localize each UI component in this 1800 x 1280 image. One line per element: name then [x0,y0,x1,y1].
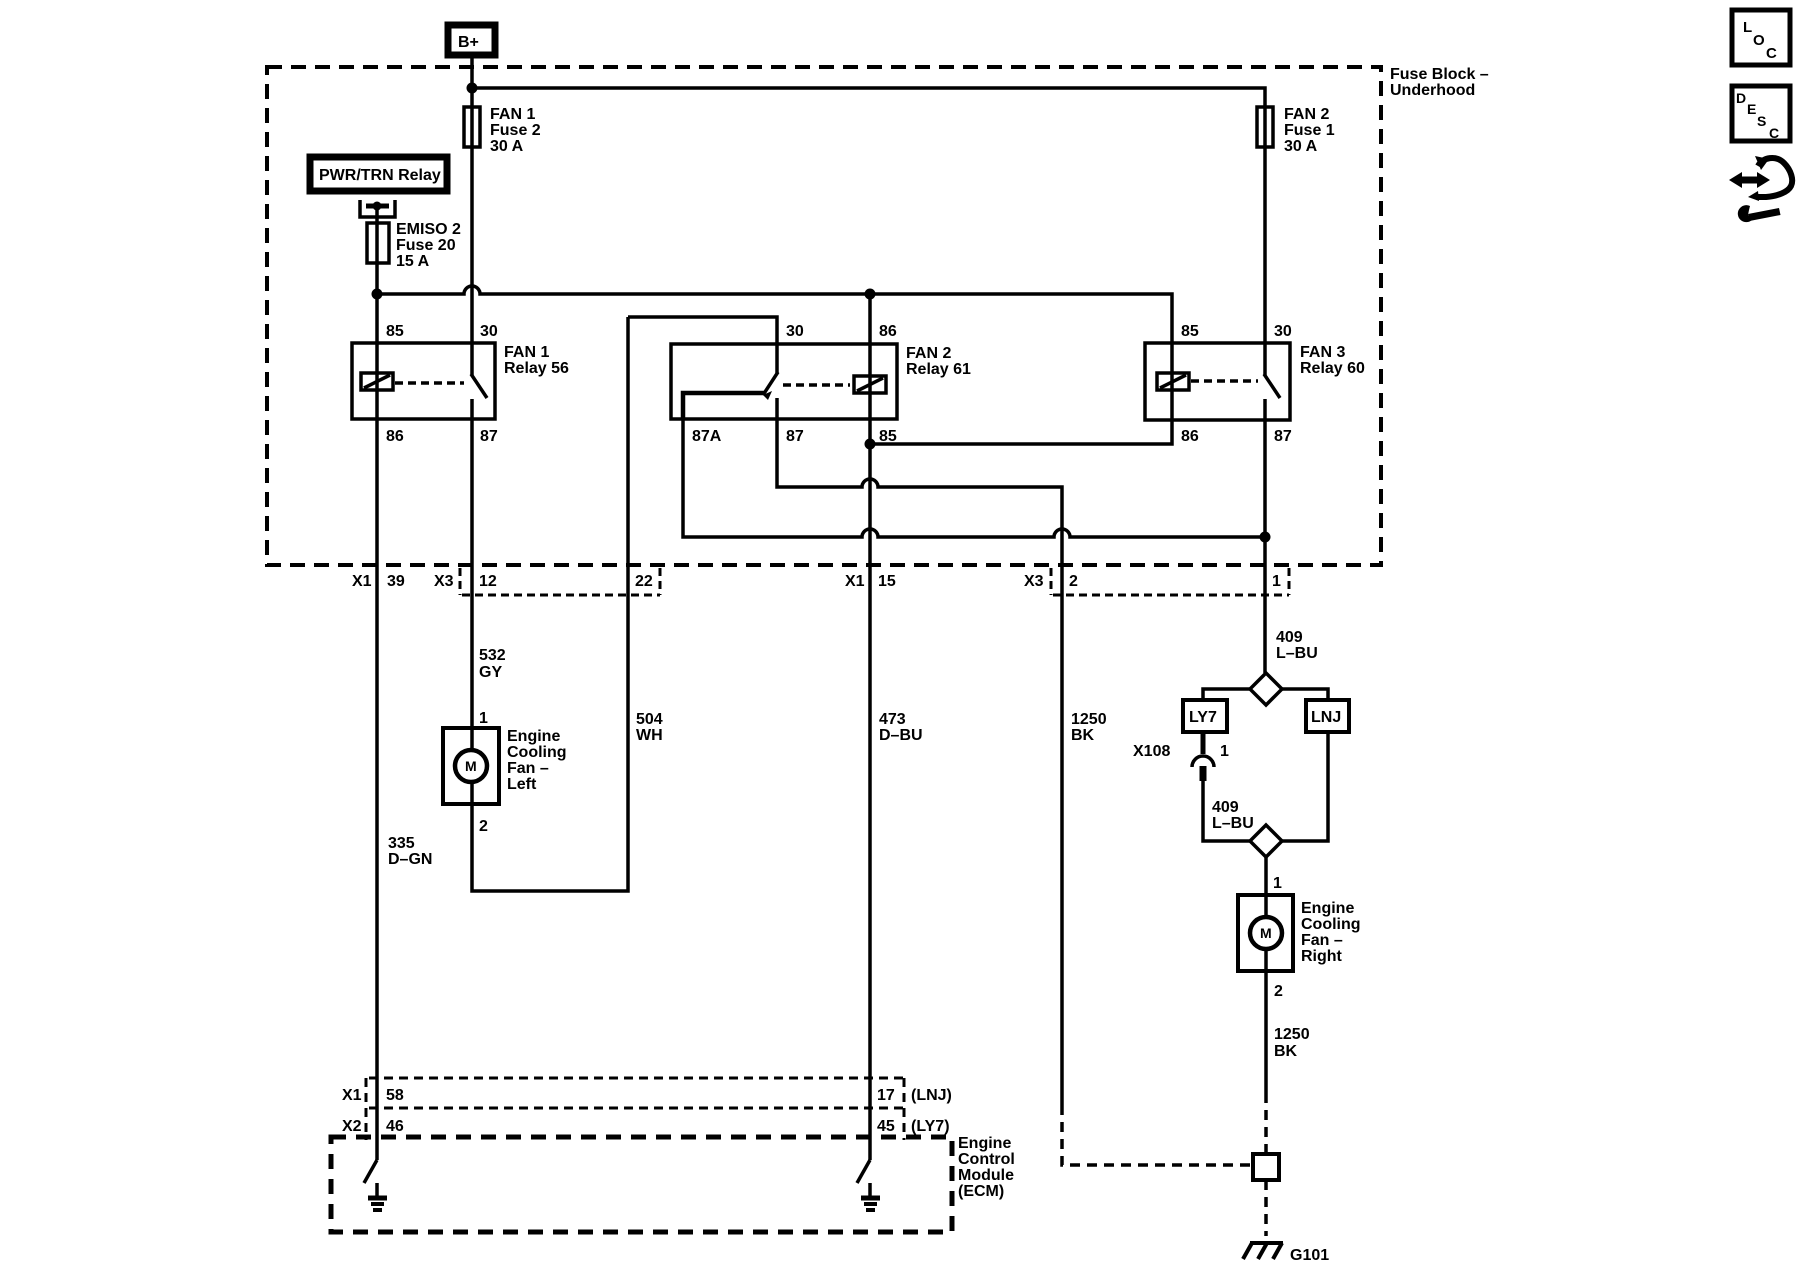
svg-text:(LY7): (LY7) [911,1118,950,1135]
wire 409 L-BU upper label [1276,629,1318,662]
svg-text:LNJ: LNJ [1311,709,1341,726]
svg-text:FAN 1: FAN 1 [490,106,535,123]
svg-text:39: 39 [387,573,405,590]
icon DESC [1732,86,1790,141]
svg-text:30 A: 30 A [1284,138,1318,155]
wire X108 down to lower splice [1203,781,1250,841]
svg-text:PWR/TRN Relay: PWR/TRN Relay [319,167,441,184]
FAN2 pin labels [692,323,897,445]
wire FAN2 fuse to relay 30 [1263,147,1267,343]
wire motor2 return to 504WH riser [472,565,628,891]
svg-text:17: 17 [877,1087,895,1104]
svg-text:Right: Right [1301,948,1343,965]
svg-text:87: 87 [1274,428,1292,445]
motor Engine Cooling Fan Right [1238,895,1361,971]
svg-text:X2: X2 [342,1118,362,1135]
svg-text:L–BU: L–BU [1276,645,1318,662]
wire right motor 2 down dashed [1264,1093,1268,1154]
connector X3 left dashed outline [460,568,660,595]
wire right motor 2 down solid [1264,971,1268,1093]
relay FAN3 Relay 60 [1145,343,1365,420]
wire 473 D-BU label [879,711,923,744]
svg-text:15: 15 [878,573,896,590]
svg-text:Relay 61: Relay 61 [906,361,971,378]
svg-text:2: 2 [1069,573,1078,590]
B+ power terminal [448,25,495,55]
wire FAN2-85 down to ECM [868,420,872,1078]
wire top bus to FAN2 fuse [472,88,1265,107]
wire 504WH riser down [626,317,630,565]
FAN1 pin labels [386,323,498,445]
wire 1250 BK label left [1071,711,1107,744]
svg-text:G101: G101 [1290,1247,1329,1264]
svg-text:45: 45 [877,1118,895,1135]
wire B+ down to junction [470,55,474,88]
svg-text:30: 30 [1274,323,1292,340]
ECM low side driver right [857,1078,880,1210]
ECM connector row X1 [342,1078,952,1140]
wire bus 294 with hop over FAN1-30 wire [377,286,1172,343]
svg-text:BK: BK [1274,1043,1298,1060]
svg-text:Underhood: Underhood [1390,82,1475,99]
wire 1250 BK label right [1274,1026,1310,1060]
wire FAN2-87 to ground riser with hop [777,419,1062,565]
node 87A to FAN3-87 junction [1260,532,1271,543]
fuse EMISO 2 Fuse 20 15A [367,221,461,270]
svg-text:C: C [1766,45,1777,62]
svg-text:87: 87 [480,428,498,445]
Fuse Block - Underhood label [1390,66,1489,99]
svg-text:Engine: Engine [958,1135,1011,1152]
wire FAN2-86 drop [868,294,872,344]
wire FAN1 fuse to relay 30 [470,147,474,343]
wire EMISO2 fuse down to bus [375,263,379,294]
node EMISO2 bus junction [372,289,383,300]
svg-text:1: 1 [1220,743,1229,760]
wire FAN2-87A to FAN3-87 with hops [683,419,1265,537]
wire LNJ down to lower splice [1282,732,1328,841]
FAN3 relay coil-switch dashed link [1191,379,1258,383]
wire splice to LY7 [1203,689,1250,700]
ground G101 [1243,1243,1329,1264]
FAN1 relay switch [471,343,487,419]
svg-text:58: 58 [386,1087,404,1104]
svg-text:409: 409 [1212,799,1239,816]
wire X3-2 ground riser dashed part [1062,1105,1253,1165]
svg-text:87: 87 [786,428,804,445]
svg-text:O: O [1753,32,1765,49]
svg-text:Relay 56: Relay 56 [504,360,569,377]
PWR/TRN relay output bracket [360,200,395,223]
svg-text:Fan –: Fan – [1301,932,1343,949]
wire 335 D-GN label [388,835,432,868]
FAN2 relay coil-switch dashed link [783,383,850,387]
LY7 option box [1183,700,1227,732]
svg-text:D–BU: D–BU [879,727,923,744]
splice lower diamond [1250,825,1282,857]
svg-text:335: 335 [388,835,415,852]
svg-text:Fan –: Fan – [507,760,549,777]
svg-text:30: 30 [480,323,498,340]
svg-text:X1: X1 [845,573,865,590]
svg-text:1: 1 [479,710,488,727]
svg-text:L: L [1743,19,1752,36]
icon arrow and wrench [1729,156,1792,222]
svg-text:Fuse 1: Fuse 1 [1284,122,1335,139]
splice square S101 [1253,1154,1279,1180]
node FAN2-85 junction [865,439,876,450]
svg-text:X1: X1 [342,1087,362,1104]
svg-text:Fuse 20: Fuse 20 [396,237,456,254]
svg-text:FAN 1: FAN 1 [504,344,549,361]
svg-text:2: 2 [479,818,488,835]
svg-text:86: 86 [879,323,897,340]
wire FAN1-87 down to motor 1 [470,419,474,728]
svg-text:Relay 60: Relay 60 [1300,360,1365,377]
ECM label [958,1135,1015,1200]
wire bus down to FAN1 relay 85 [375,294,379,343]
splice upper diamond [1250,673,1282,705]
svg-text:85: 85 [386,323,404,340]
svg-text:532: 532 [479,647,506,664]
svg-text:Left: Left [507,776,537,793]
relay FAN1 Relay 56 [352,343,569,419]
Fuse Block - Underhood dashed box [267,67,1381,565]
svg-text:1250: 1250 [1274,1026,1310,1043]
svg-text:86: 86 [386,428,404,445]
svg-text:L–BU: L–BU [1212,815,1254,832]
FAN2 relay switch [763,344,778,419]
connector X3 right dashed outline [1051,568,1289,595]
svg-text:1250: 1250 [1071,711,1107,728]
svg-text:S: S [1757,113,1766,129]
svg-text:WH: WH [636,727,663,744]
svg-text:85: 85 [1181,323,1199,340]
LNJ option box [1306,700,1349,732]
wire splice square down dashed [1264,1180,1268,1236]
svg-text:409: 409 [1276,629,1303,646]
svg-text:15 A: 15 A [396,253,430,270]
wire splice to right motor [1264,857,1268,895]
icon LOC [1732,10,1790,65]
wire 504 WH label [636,711,663,744]
svg-text:X1: X1 [352,573,372,590]
svg-text:87A: 87A [692,428,722,445]
svg-text:Fuse Block –: Fuse Block – [1390,66,1489,83]
svg-text:2: 2 [1274,983,1283,1000]
svg-text:D–GN: D–GN [388,851,432,868]
FAN3 pin labels [1181,323,1292,445]
svg-text:FAN 3: FAN 3 [1300,344,1345,361]
node B+ junction [467,83,478,94]
FAN3 relay switch [1264,343,1280,420]
svg-text:22: 22 [635,573,653,590]
svg-text:Fuse 2: Fuse 2 [490,122,541,139]
FAN2 87A contact arm [683,393,764,419]
motor Engine Cooling Fan Left [443,728,567,804]
PWR/TRN Relay box [310,157,447,191]
svg-text:X3: X3 [434,573,454,590]
wire FAN2-30 feed from 504WH riser [628,317,777,344]
svg-text:30 A: 30 A [490,138,524,155]
svg-text:30: 30 [786,323,804,340]
svg-text:86: 86 [1181,428,1199,445]
wire 409 L-BU lower label [1212,799,1254,832]
node FAN2-86 tap [865,289,876,300]
svg-text:Engine: Engine [507,728,560,745]
svg-text:EMISO 2: EMISO 2 [396,221,461,238]
svg-text:473: 473 [879,711,906,728]
FAN1 relay coil-switch dashed link [395,381,464,385]
svg-text:B+: B+ [458,34,479,51]
connector X108 [1133,743,1229,781]
svg-text:X3: X3 [1024,573,1044,590]
FAN2 relay coil [854,344,886,419]
svg-text:M: M [1260,925,1272,941]
wire FAN1-86 down to ECM [375,419,379,1078]
svg-text:(LNJ): (LNJ) [911,1087,952,1104]
fuse FAN2 Fuse 1 30A [1257,106,1335,155]
svg-text:504: 504 [636,711,663,728]
svg-text:(ECM): (ECM) [958,1183,1004,1200]
wire splice to LNJ [1282,689,1328,700]
wire X3-2 ground riser solid part [1060,565,1064,1105]
svg-text:X108: X108 [1133,743,1170,760]
wire FAN3-86 to FAN2-85 [870,420,1172,444]
wire 532 GY (FAN1-87 to motor) label [479,647,506,681]
ECM low side driver left [364,1078,387,1210]
FAN3 relay coil [1157,343,1189,420]
svg-text:Engine: Engine [1301,900,1354,917]
wire FAN3-87 down through border [1263,420,1267,673]
wire B+ junction down to FAN1 fuse [470,88,474,107]
svg-text:GY: GY [479,664,502,681]
svg-text:Control: Control [958,1151,1015,1168]
svg-text:FAN 2: FAN 2 [1284,106,1329,123]
fuse block border pin labels [352,573,1281,590]
relay FAN2 Relay 61 [671,344,971,419]
svg-text:12: 12 [479,573,497,590]
fuse FAN1 Fuse 2 30A [464,106,541,155]
svg-text:C: C [1769,125,1779,141]
svg-text:E: E [1747,101,1756,117]
svg-text:FAN 2: FAN 2 [906,345,951,362]
svg-text:Cooling: Cooling [1301,916,1361,933]
svg-text:Cooling: Cooling [507,744,567,761]
svg-text:D: D [1736,90,1746,106]
ECM box [331,1137,952,1232]
svg-text:BK: BK [1071,727,1095,744]
svg-text:46: 46 [386,1118,404,1135]
svg-text:LY7: LY7 [1189,709,1217,726]
svg-text:1: 1 [1273,875,1282,892]
wire LY7 down to X108 [1201,732,1206,754]
FAN1 relay coil [361,343,393,419]
svg-text:Module: Module [958,1167,1014,1184]
svg-text:1: 1 [1272,573,1281,590]
svg-text:M: M [465,758,477,774]
